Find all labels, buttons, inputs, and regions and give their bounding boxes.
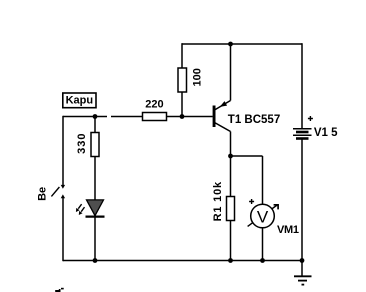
svg-text:100: 100: [191, 68, 203, 86]
svg-text:Kapu: Kapu: [66, 94, 94, 106]
svg-text:330: 330: [76, 133, 88, 154]
svg-text:220: 220: [145, 98, 163, 110]
svg-text:T1 BC557: T1 BC557: [228, 114, 280, 126]
svg-text:V1 5: V1 5: [314, 127, 338, 139]
svg-text:Be: Be: [36, 187, 48, 201]
svg-text:VM1: VM1: [277, 224, 299, 236]
svg-text:V: V: [257, 207, 269, 226]
svg-text:R1 10k: R1 10k: [212, 181, 224, 221]
